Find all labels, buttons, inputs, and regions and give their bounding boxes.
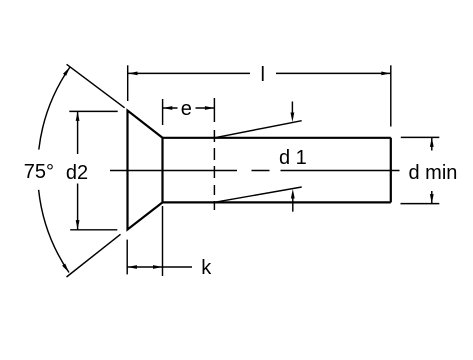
construction line 75deg top <box>67 64 125 108</box>
svg-text:l: l <box>260 64 264 86</box>
arrowhead e right <box>205 106 215 110</box>
head/shank junction line <box>161 138 163 203</box>
arrowhead d min top <box>430 137 434 147</box>
arrowhead k right <box>153 265 163 269</box>
svg-text:d 1: d 1 <box>279 147 307 169</box>
dimension l line <box>128 72 391 74</box>
dimension k line <box>127 266 192 268</box>
dimension d2 line <box>77 111 79 229</box>
dimension k extension right <box>162 206 164 276</box>
arrowhead l right <box>381 72 391 76</box>
rivet shank outline <box>163 138 391 203</box>
taper leader line top <box>214 121 301 138</box>
arrowhead arc bottom <box>62 264 69 273</box>
taper leader arrow shaft bottom <box>292 193 294 212</box>
75deg angle arc <box>39 67 70 273</box>
taper leader arrow shaft top <box>291 102 293 119</box>
dimension d2 extension top <box>69 110 117 112</box>
arrowhead d2 bottom <box>76 220 80 230</box>
svg-text:d2: d2 <box>66 162 88 184</box>
dimension d min line <box>431 137 433 203</box>
centerline <box>110 170 400 172</box>
svg-text:d min: d min <box>409 162 458 184</box>
taper leader line bottom <box>214 187 301 202</box>
svg-text:k: k <box>201 257 212 279</box>
arrowhead taper bottom <box>291 189 295 199</box>
arrowhead d min bottom <box>430 194 434 204</box>
arrowhead l left <box>128 72 138 76</box>
dimension k extension left <box>126 240 128 275</box>
arrowhead e left <box>163 106 173 110</box>
arrowhead arc top <box>63 67 70 76</box>
dimension l extension left <box>127 65 129 101</box>
dimension d2 extension bottom <box>70 229 117 231</box>
arrowhead taper top <box>291 113 295 123</box>
svg-text:75°: 75° <box>24 161 54 183</box>
dimension l extension right <box>390 65 392 126</box>
dimension d min extension bottom <box>401 203 440 205</box>
dashed line at e / cone vertex <box>213 98 215 210</box>
construction line 75deg bottom <box>67 234 121 277</box>
arrowhead d2 top <box>76 111 80 121</box>
dimension e extension left <box>162 99 164 125</box>
arrowhead k left <box>127 265 136 269</box>
dimension e line <box>163 107 215 109</box>
rivet head outline <box>128 111 163 230</box>
dimension d min extension top <box>401 136 440 138</box>
svg-text:e: e <box>181 98 192 120</box>
